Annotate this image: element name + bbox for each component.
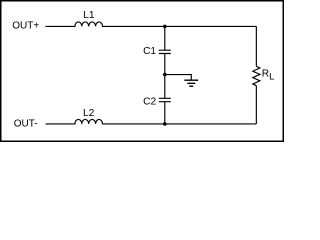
svg-text:OUT-: OUT- bbox=[14, 119, 38, 130]
svg-text:RL: RL bbox=[262, 69, 275, 82]
svg-text:C1: C1 bbox=[143, 46, 156, 57]
svg-text:L2: L2 bbox=[83, 108, 95, 119]
svg-text:OUT+: OUT+ bbox=[12, 21, 39, 32]
svg-text:C2: C2 bbox=[143, 97, 156, 108]
svg-text:L1: L1 bbox=[83, 10, 95, 21]
